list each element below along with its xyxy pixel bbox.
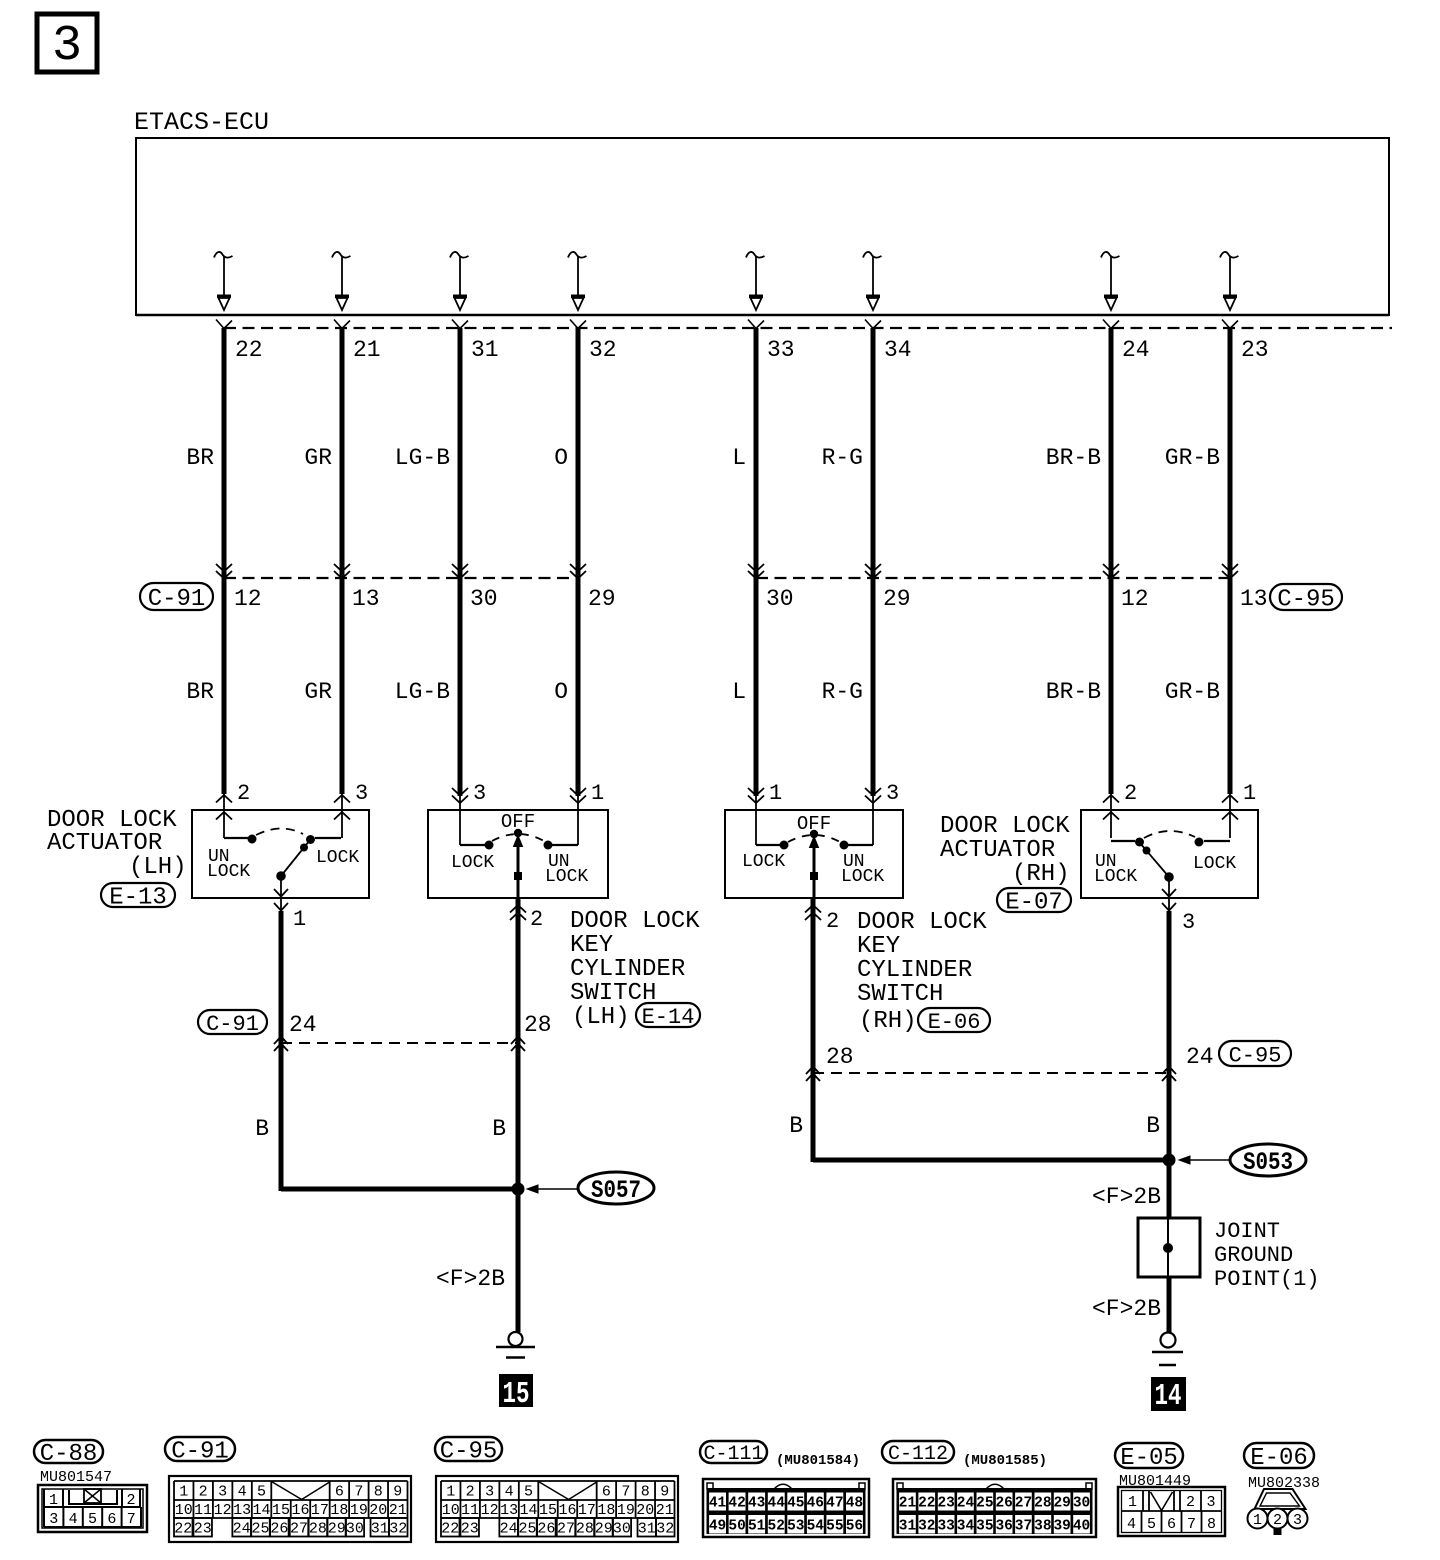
svg-text:21: 21	[353, 337, 381, 363]
svg-text:C-95: C-95	[1277, 587, 1335, 614]
svg-text:37: 37	[1015, 1519, 1032, 1535]
svg-text:<F>2B: <F>2B	[1092, 1296, 1161, 1322]
svg-text:3: 3	[473, 781, 486, 806]
svg-text:49: 49	[709, 1519, 726, 1535]
svg-text:30: 30	[346, 1521, 364, 1538]
svg-text:3: 3	[1182, 910, 1195, 935]
svg-text:R-G: R-G	[822, 445, 863, 471]
svg-text:24: 24	[500, 1521, 518, 1538]
svg-text:2: 2	[237, 781, 250, 806]
svg-text:E-14: E-14	[642, 1005, 695, 1030]
svg-text:DOOR LOCK: DOOR LOCK	[857, 909, 987, 936]
svg-text:3: 3	[49, 1511, 58, 1528]
svg-text:47: 47	[826, 1496, 843, 1512]
svg-text:S057: S057	[591, 1176, 641, 1205]
svg-text:51: 51	[748, 1519, 766, 1535]
svg-text:BR: BR	[186, 445, 214, 471]
svg-text:6: 6	[1167, 1516, 1176, 1533]
svg-text:BR: BR	[186, 679, 214, 705]
svg-text:48: 48	[846, 1496, 863, 1512]
svg-text:BR-B: BR-B	[1046, 445, 1101, 471]
svg-text:7: 7	[354, 1484, 363, 1501]
svg-text:9: 9	[660, 1484, 669, 1501]
svg-text:22: 22	[235, 337, 263, 363]
svg-text:ETACS-ECU: ETACS-ECU	[134, 108, 269, 137]
svg-text:5: 5	[88, 1511, 97, 1528]
svg-text:13: 13	[233, 1502, 251, 1519]
svg-text:28: 28	[309, 1521, 327, 1538]
svg-text:1: 1	[1128, 1494, 1137, 1511]
svg-text:23: 23	[461, 1521, 479, 1538]
svg-text:1: 1	[179, 1484, 188, 1501]
svg-text:LOCK: LOCK	[451, 853, 494, 873]
svg-text:LOCK: LOCK	[545, 867, 588, 887]
svg-text:12: 12	[1121, 586, 1149, 612]
svg-text:O: O	[554, 445, 568, 471]
svg-text:1: 1	[769, 781, 782, 806]
svg-text:34: 34	[884, 337, 912, 363]
svg-text:8: 8	[1207, 1516, 1216, 1533]
svg-text:5: 5	[1147, 1516, 1156, 1533]
svg-text:42: 42	[728, 1496, 745, 1512]
svg-text:16: 16	[291, 1502, 309, 1519]
svg-text:32: 32	[918, 1519, 935, 1535]
svg-text:35: 35	[976, 1519, 993, 1535]
svg-text:CYLINDER: CYLINDER	[570, 956, 685, 983]
svg-text:6: 6	[335, 1484, 344, 1501]
svg-text:25: 25	[976, 1496, 993, 1512]
svg-text:11: 11	[461, 1502, 479, 1519]
svg-text:1: 1	[293, 907, 306, 932]
svg-text:R-G: R-G	[822, 679, 863, 705]
svg-text:3: 3	[485, 1484, 494, 1501]
svg-text:13: 13	[1240, 586, 1268, 612]
svg-text:30: 30	[470, 586, 498, 612]
svg-text:B: B	[1146, 1113, 1160, 1139]
svg-text:31: 31	[371, 1521, 389, 1538]
svg-text:3: 3	[886, 781, 899, 806]
svg-text:23: 23	[194, 1521, 212, 1538]
svg-text:5: 5	[257, 1484, 266, 1501]
svg-text:29: 29	[883, 586, 911, 612]
svg-text:14: 14	[253, 1502, 271, 1519]
svg-text:9: 9	[393, 1484, 402, 1501]
svg-text:CYLINDER: CYLINDER	[857, 957, 972, 984]
svg-text:3: 3	[355, 781, 368, 806]
svg-text:B: B	[492, 1116, 506, 1142]
svg-text:C-111: C-111	[703, 1443, 763, 1466]
svg-text:12: 12	[214, 1502, 232, 1519]
svg-text:17: 17	[578, 1502, 596, 1519]
svg-text:52: 52	[768, 1519, 785, 1535]
svg-text:3: 3	[52, 18, 82, 75]
svg-text:24: 24	[233, 1521, 251, 1538]
svg-text:O: O	[554, 679, 568, 705]
svg-text:(MU801585): (MU801585)	[963, 1453, 1047, 1469]
svg-text:E-06: E-06	[1250, 1445, 1308, 1472]
svg-text:GR-B: GR-B	[1165, 679, 1220, 705]
svg-text:16: 16	[558, 1502, 576, 1519]
svg-text:10: 10	[175, 1502, 193, 1519]
svg-text:33: 33	[767, 337, 795, 363]
svg-text:3: 3	[1206, 1494, 1215, 1511]
svg-text:25: 25	[251, 1521, 269, 1538]
svg-text:JOINT: JOINT	[1214, 1219, 1280, 1244]
svg-text:2: 2	[530, 907, 543, 932]
svg-text:5: 5	[524, 1484, 533, 1501]
svg-text:2: 2	[199, 1484, 208, 1501]
svg-text:30: 30	[613, 1521, 631, 1538]
svg-text:C-112: C-112	[888, 1443, 948, 1466]
svg-text:C-95: C-95	[440, 1439, 498, 1466]
svg-text:14: 14	[1155, 1379, 1182, 1414]
svg-text:6: 6	[107, 1511, 116, 1528]
svg-text:44: 44	[768, 1496, 786, 1512]
svg-text:DOOR LOCK: DOOR LOCK	[940, 813, 1070, 840]
svg-text:11: 11	[194, 1502, 212, 1519]
svg-text:C-91: C-91	[206, 1012, 259, 1037]
svg-text:36: 36	[995, 1519, 1012, 1535]
svg-text:38: 38	[1034, 1519, 1051, 1535]
svg-text:2: 2	[466, 1484, 475, 1501]
svg-text:2: 2	[826, 909, 839, 934]
svg-text:26: 26	[270, 1521, 288, 1538]
svg-text:18: 18	[330, 1502, 348, 1519]
svg-text:(MU801584): (MU801584)	[776, 1453, 860, 1469]
svg-text:27: 27	[290, 1521, 308, 1538]
svg-text:20: 20	[636, 1502, 654, 1519]
svg-text:53: 53	[787, 1519, 804, 1535]
svg-text:3: 3	[1293, 1512, 1302, 1529]
svg-text:LOCK: LOCK	[1094, 867, 1137, 887]
svg-text:18: 18	[597, 1502, 615, 1519]
svg-text:54: 54	[807, 1519, 825, 1535]
svg-text:22: 22	[174, 1521, 192, 1538]
svg-text:25: 25	[518, 1521, 536, 1538]
svg-text:LOCK: LOCK	[207, 862, 250, 882]
svg-text:GROUND: GROUND	[1214, 1243, 1293, 1268]
svg-text:(RH): (RH)	[859, 1008, 917, 1035]
svg-text:29: 29	[595, 1521, 613, 1538]
svg-text:55: 55	[826, 1519, 843, 1535]
svg-text:<F>2B: <F>2B	[436, 1266, 505, 1292]
svg-text:POINT(1): POINT(1)	[1214, 1267, 1320, 1292]
svg-text:ACTUATOR: ACTUATOR	[47, 830, 162, 857]
svg-text:GR: GR	[304, 445, 332, 471]
svg-text:31: 31	[899, 1519, 917, 1535]
svg-text:39: 39	[1053, 1519, 1070, 1535]
svg-text:LOCK: LOCK	[841, 867, 884, 887]
svg-text:12: 12	[481, 1502, 499, 1519]
svg-text:(RH): (RH)	[1012, 861, 1070, 888]
svg-text:46: 46	[807, 1496, 824, 1512]
svg-text:29: 29	[588, 586, 616, 612]
svg-text:34: 34	[957, 1519, 975, 1535]
svg-text:33: 33	[937, 1519, 954, 1535]
svg-text:31: 31	[471, 337, 499, 363]
svg-text:22: 22	[918, 1496, 935, 1512]
svg-text:L: L	[732, 445, 746, 471]
svg-text:S053: S053	[1243, 1148, 1293, 1177]
svg-text:24: 24	[289, 1012, 317, 1038]
svg-text:32: 32	[389, 1521, 407, 1538]
svg-text:43: 43	[748, 1496, 765, 1512]
svg-text:13: 13	[352, 586, 380, 612]
svg-text:13: 13	[500, 1502, 518, 1519]
svg-text:17: 17	[311, 1502, 329, 1519]
svg-text:C-91: C-91	[171, 1439, 229, 1466]
svg-text:C-91: C-91	[148, 586, 206, 613]
svg-text:12: 12	[234, 586, 262, 612]
svg-text:24: 24	[957, 1496, 975, 1512]
svg-text:1: 1	[446, 1484, 455, 1501]
svg-text:45: 45	[787, 1496, 804, 1512]
svg-text:32: 32	[589, 337, 617, 363]
svg-text:LOCK: LOCK	[742, 852, 785, 872]
svg-text:4: 4	[505, 1484, 514, 1501]
svg-text:15: 15	[503, 1377, 530, 1412]
svg-text:E-07: E-07	[1005, 890, 1063, 917]
svg-text:2: 2	[126, 1492, 135, 1509]
svg-text:19: 19	[617, 1502, 635, 1519]
svg-text:1: 1	[1253, 1512, 1262, 1529]
svg-text:2: 2	[1124, 781, 1137, 806]
svg-text:20: 20	[369, 1502, 387, 1519]
svg-text:28: 28	[576, 1521, 594, 1538]
svg-text:24: 24	[1186, 1044, 1214, 1070]
svg-text:28: 28	[826, 1044, 854, 1070]
svg-text:23: 23	[1241, 337, 1269, 363]
svg-text:24: 24	[1122, 337, 1150, 363]
svg-text:14: 14	[520, 1502, 538, 1519]
svg-text:15: 15	[539, 1502, 557, 1519]
svg-text:3: 3	[218, 1484, 227, 1501]
svg-text:C-95: C-95	[1229, 1043, 1282, 1068]
svg-text:30: 30	[1073, 1496, 1090, 1512]
svg-text:KEY: KEY	[857, 933, 900, 960]
svg-text:GR-B: GR-B	[1165, 445, 1220, 471]
svg-text:LG-B: LG-B	[395, 445, 450, 471]
svg-text:50: 50	[728, 1519, 745, 1535]
svg-text:27: 27	[557, 1521, 575, 1538]
svg-text:29: 29	[328, 1521, 346, 1538]
svg-text:1: 1	[49, 1492, 58, 1509]
svg-text:KEY: KEY	[570, 932, 613, 959]
svg-text:8: 8	[374, 1484, 383, 1501]
svg-text:21: 21	[389, 1502, 407, 1519]
svg-text:E-05: E-05	[1120, 1445, 1178, 1472]
svg-text:40: 40	[1073, 1519, 1090, 1535]
svg-text:BR-B: BR-B	[1046, 679, 1101, 705]
svg-text:MU801547: MU801547	[40, 1469, 112, 1486]
svg-text:26: 26	[537, 1521, 555, 1538]
svg-text:8: 8	[641, 1484, 650, 1501]
svg-text:30: 30	[766, 586, 794, 612]
svg-text:7: 7	[1187, 1516, 1196, 1533]
svg-text:28: 28	[1034, 1496, 1051, 1512]
svg-text:(LH): (LH)	[572, 1004, 630, 1031]
svg-text:ACTUATOR: ACTUATOR	[940, 837, 1055, 864]
svg-text:4: 4	[238, 1484, 247, 1501]
svg-text:7: 7	[621, 1484, 630, 1501]
svg-text:(LH): (LH)	[129, 854, 187, 881]
svg-text:10: 10	[442, 1502, 460, 1519]
svg-text:SWITCH: SWITCH	[857, 981, 943, 1008]
svg-text:GR: GR	[304, 679, 332, 705]
svg-text:LOCK: LOCK	[1193, 854, 1236, 874]
svg-text:41: 41	[709, 1496, 727, 1512]
svg-text:19: 19	[350, 1502, 368, 1519]
svg-text:27: 27	[1015, 1496, 1032, 1512]
svg-text:<F>2B: <F>2B	[1092, 1184, 1161, 1210]
svg-text:32: 32	[656, 1521, 674, 1538]
svg-text:31: 31	[638, 1521, 656, 1538]
svg-text:26: 26	[995, 1496, 1012, 1512]
svg-text:23: 23	[937, 1496, 954, 1512]
svg-text:15: 15	[272, 1502, 290, 1519]
svg-text:1: 1	[1243, 781, 1256, 806]
svg-text:DOOR LOCK: DOOR LOCK	[570, 908, 700, 935]
svg-text:21: 21	[656, 1502, 674, 1519]
svg-text:E-06: E-06	[928, 1010, 981, 1035]
svg-text:LG-B: LG-B	[395, 679, 450, 705]
svg-text:6: 6	[602, 1484, 611, 1501]
svg-text:56: 56	[846, 1519, 863, 1535]
svg-text:2: 2	[1186, 1494, 1195, 1511]
svg-text:21: 21	[899, 1496, 917, 1512]
svg-text:LOCK: LOCK	[316, 848, 359, 868]
svg-text:B: B	[789, 1113, 803, 1139]
svg-text:22: 22	[441, 1521, 459, 1538]
svg-text:29: 29	[1053, 1496, 1070, 1512]
svg-text:1: 1	[591, 781, 604, 806]
svg-text:B: B	[255, 1116, 269, 1142]
svg-text:L: L	[732, 679, 746, 705]
svg-text:C-88: C-88	[40, 1441, 98, 1468]
svg-text:7: 7	[127, 1511, 136, 1528]
svg-text:4: 4	[1127, 1516, 1136, 1533]
svg-text:28: 28	[524, 1012, 552, 1038]
svg-text:2: 2	[1273, 1512, 1282, 1529]
svg-text:E-13: E-13	[109, 885, 167, 912]
svg-text:4: 4	[69, 1511, 78, 1528]
